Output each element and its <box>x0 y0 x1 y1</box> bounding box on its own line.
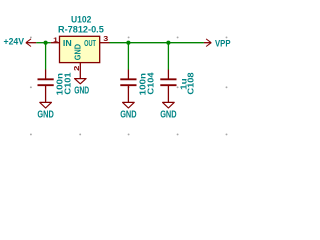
junction node at C104 tap <box>126 41 130 45</box>
wire down to C108 <box>167 43 169 70</box>
svg-text:GND: GND <box>74 86 89 97</box>
capacitor C104 <box>120 70 136 103</box>
svg-text:C108: C108 <box>186 72 195 95</box>
svg-text:2: 2 <box>74 65 81 71</box>
wire down to C104 <box>127 43 129 70</box>
svg-text:GND: GND <box>37 110 53 121</box>
svg-text:R-7812-0.5: R-7812-0.5 <box>58 25 104 36</box>
svg-text:U102: U102 <box>71 15 91 25</box>
svg-text:C101: C101 <box>63 72 72 95</box>
svg-text:1: 1 <box>53 37 58 44</box>
ground symbol under C104 <box>123 102 135 108</box>
svg-text:GND: GND <box>72 44 82 60</box>
ground symbol under regulator <box>75 79 87 84</box>
wire from +24V to pin 1 <box>36 42 51 44</box>
wire from pin 3 to VPP <box>110 42 204 44</box>
capacitor C101 <box>38 70 54 103</box>
svg-text:3: 3 <box>103 36 108 43</box>
svg-text:GND: GND <box>160 110 176 121</box>
svg-text:OUT: OUT <box>84 38 96 48</box>
pin 1 (IN) <box>51 42 60 44</box>
power symbol VPP arrow <box>204 39 211 47</box>
power symbol +24V arrow <box>26 39 36 47</box>
svg-text:GND: GND <box>120 110 136 121</box>
wire down to C101 <box>45 43 47 70</box>
junction node at C108 tap <box>166 41 170 45</box>
ground symbol under C101 <box>40 102 52 108</box>
pin 3 (OUT) <box>100 42 110 44</box>
svg-text:+24V: +24V <box>4 36 25 47</box>
regulator U102 body <box>60 36 100 62</box>
svg-text:C104: C104 <box>146 72 155 95</box>
capacitor C108 <box>160 70 176 103</box>
svg-text:VPP: VPP <box>215 39 231 49</box>
ground symbol under C108 <box>163 102 175 108</box>
junction node at C101 tap <box>44 41 48 45</box>
pin 2 (GND) <box>79 63 81 79</box>
svg-text:IN: IN <box>63 38 72 48</box>
